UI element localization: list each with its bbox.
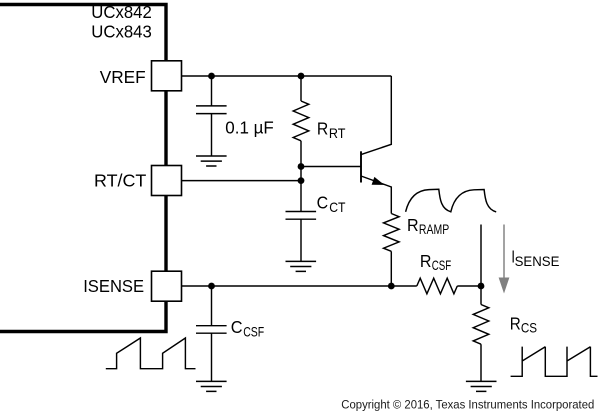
svg-text:UCx842: UCx842 bbox=[91, 2, 152, 22]
svg-text:Copyright © 2016, Texas Instru: Copyright © 2016, Texas Instruments Inco… bbox=[341, 398, 594, 412]
sawtooth waveform right bbox=[511, 347, 598, 377]
node D junction dot bbox=[478, 283, 485, 290]
svg-text:RT: RT bbox=[329, 126, 346, 141]
sawtooth waveform left bbox=[106, 338, 196, 369]
ground for RCS bbox=[466, 381, 497, 391]
capacitor CCSF lead bottom bbox=[211, 333, 213, 381]
resistor RRAMP bbox=[384, 214, 400, 252]
svg-text:CS: CS bbox=[521, 321, 537, 336]
svg-text:R: R bbox=[510, 313, 521, 333]
resistor RRAMP lead bottom bbox=[390, 251, 392, 286]
svg-text:CSF: CSF bbox=[243, 325, 264, 340]
resistor RCS lead top bbox=[480, 286, 482, 305]
svg-text:C: C bbox=[231, 317, 243, 337]
transistor Q1 collector bbox=[361, 76, 391, 155]
current arrow ISENSE (gray) bbox=[499, 225, 510, 294]
ramp waveform squiggle bbox=[406, 189, 497, 212]
svg-text:VREF: VREF bbox=[100, 67, 146, 87]
svg-text:R: R bbox=[407, 215, 419, 235]
node C junction dot (RRAMP bottom) bbox=[388, 283, 395, 290]
wire ISENSE net bbox=[182, 285, 417, 287]
svg-text:R: R bbox=[317, 119, 328, 139]
capacitor CCSF bbox=[196, 326, 227, 334]
wire RCSF to node D bbox=[457, 285, 481, 287]
transistor Q1 emitter bbox=[361, 176, 391, 214]
resistor RCS bbox=[473, 305, 489, 345]
svg-text:UCx843: UCx843 bbox=[91, 22, 152, 42]
svg-text:CSF: CSF bbox=[432, 258, 452, 273]
svg-text:C: C bbox=[317, 192, 329, 212]
wire RT/CT pin to node B bbox=[182, 180, 302, 182]
capacitor CCSF lead top bbox=[211, 286, 213, 326]
pin RT/CT box bbox=[152, 166, 182, 196]
svg-text:SENSE: SENSE bbox=[515, 254, 560, 269]
wire stub above node D bbox=[480, 225, 482, 287]
capacitor 0.1uF lead top bbox=[211, 76, 213, 106]
node A junction dot bbox=[298, 163, 305, 170]
junction dot RRT top bbox=[298, 73, 305, 80]
resistor RRT lead top bbox=[300, 76, 302, 101]
node B junction dot bbox=[298, 177, 305, 184]
svg-text:CT: CT bbox=[329, 200, 346, 215]
pin VREF box bbox=[152, 61, 182, 91]
capacitor CCT lead bottom bbox=[300, 219, 302, 261]
junction dot 0.1uF tap bbox=[208, 73, 215, 80]
resistor RCSF bbox=[417, 278, 458, 294]
ground for CCT bbox=[286, 261, 317, 271]
IC block U1 outline (UCx842/UCx843) bbox=[0, 5, 166, 332]
ground for CCSF bbox=[196, 381, 227, 391]
capacitor CCT bbox=[286, 212, 317, 220]
resistor RCS lead bottom bbox=[480, 344, 482, 381]
ground for 0.1uF bbox=[196, 156, 227, 166]
wire node A to base bbox=[301, 166, 361, 168]
pin ISENSE box bbox=[152, 271, 182, 301]
wire VREF net bbox=[182, 75, 392, 77]
transistor Q1 base bar bbox=[360, 151, 362, 182]
capacitor 0.1uF bbox=[196, 106, 227, 114]
svg-text:RT/CT: RT/CT bbox=[94, 170, 147, 190]
svg-text:0.1 µF: 0.1 µF bbox=[225, 118, 274, 138]
wire node A to CCT bbox=[300, 167, 302, 212]
svg-text:ISENSE: ISENSE bbox=[83, 276, 144, 296]
transistor Q1 emitter arrow bbox=[372, 177, 385, 185]
junction dot CCSF tap bbox=[208, 283, 215, 290]
svg-text:R: R bbox=[420, 251, 432, 271]
resistor RRT bbox=[293, 101, 309, 141]
wire RRT bottom to node A bbox=[300, 141, 302, 167]
capacitor 0.1uF lead bottom bbox=[211, 114, 213, 156]
svg-text:RAMP: RAMP bbox=[419, 222, 449, 237]
